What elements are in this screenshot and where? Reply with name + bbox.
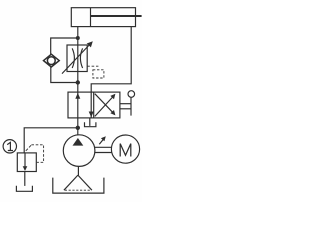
wire check valve lower leg bbox=[51, 67, 78, 83]
V4 pilot dashed line bbox=[26, 145, 32, 151]
wire A-port stub bbox=[77, 83, 79, 93]
wire left rail to relief valve bbox=[24, 128, 78, 153]
adjustment arrow of V1 bbox=[62, 44, 91, 74]
flow control valve V1 body bbox=[67, 45, 87, 72]
node junction P (dot) bbox=[76, 126, 80, 130]
wire cylinder cap-side port bbox=[77, 27, 79, 38]
wire right stub upper bbox=[120, 103, 132, 105]
wire branch to check valve bbox=[51, 38, 78, 55]
wire right stub lower bbox=[120, 108, 132, 110]
directional valve V3 body bbox=[68, 92, 120, 118]
wire pump outlet stub bbox=[77, 128, 79, 135]
variable arrow at shaft bbox=[99, 138, 104, 144]
tank T2 under T-port bbox=[85, 122, 96, 126]
wire B-port line to cylinder rod side bbox=[91, 27, 131, 93]
wire T-port stub bbox=[89, 118, 91, 126]
wire pump suction bbox=[77, 166, 79, 175]
tank T1 main reservoir bbox=[53, 178, 104, 194]
label circled 1 bbox=[3, 140, 16, 153]
wire P-port stub bbox=[77, 118, 79, 128]
V4 internal down-arrow bbox=[24, 153, 26, 170]
cylinder C1 bbox=[71, 8, 141, 27]
node junction A (dot) bbox=[76, 80, 80, 84]
pump P1 circle bbox=[63, 135, 95, 167]
V3 left square up-arrow path bbox=[77, 92, 79, 118]
check valve V2 bbox=[44, 54, 60, 67]
wire relief valve outlet bbox=[24, 172, 26, 186]
motor M1 letter bbox=[120, 144, 131, 157]
pump P1 outlet triangle bbox=[73, 138, 84, 146]
wire right assembly vertical bbox=[130, 97, 132, 115]
V3 left square down-arrow path bbox=[90, 92, 92, 118]
motor M1 circle bbox=[111, 135, 139, 163]
node junction top (dot) bbox=[76, 36, 80, 40]
shaft between pump and motor bbox=[95, 146, 112, 148]
pilot dashed box of V1 bbox=[93, 70, 104, 78]
pilot circle at valve right bbox=[128, 91, 135, 98]
strainer F1 bbox=[64, 175, 78, 190]
throttle arcs of V1 bbox=[72, 48, 74, 68]
tank T3 under relief valve bbox=[16, 186, 32, 192]
relief valve V4 body bbox=[17, 153, 36, 172]
V3 right square crossed arrows bbox=[95, 96, 114, 116]
wire flow control through-line bbox=[77, 38, 79, 83]
pilot dashed line of V1 bbox=[87, 65, 98, 67]
